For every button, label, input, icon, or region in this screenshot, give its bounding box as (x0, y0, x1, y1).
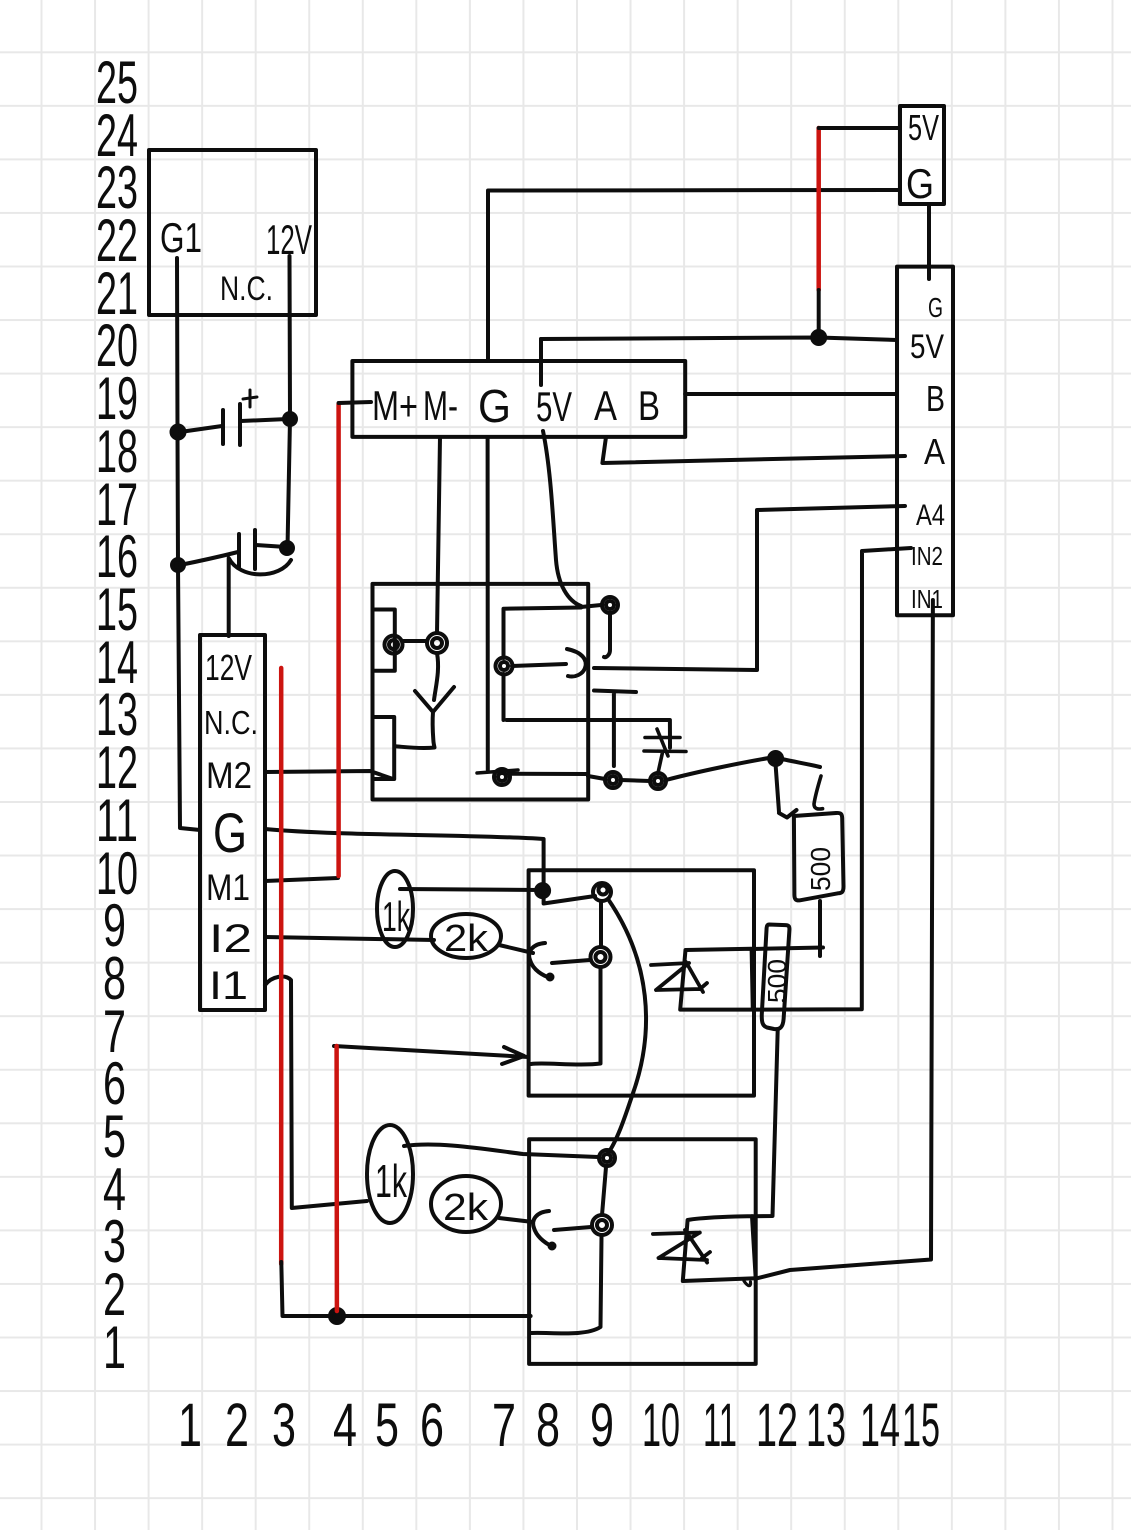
transistor Q1 base curl (529, 943, 552, 980)
node Q2 collector (599, 1150, 615, 1166)
svg-text:G: G (906, 160, 934, 207)
svg-text:A: A (594, 382, 617, 429)
wire 5V swoop to opto (543, 431, 581, 606)
svg-text:500: 500 (805, 847, 836, 891)
capacitor C4 symbol (644, 729, 686, 772)
wire K2 hook (744, 1281, 751, 1286)
wire red C 12V drop (279, 668, 284, 1264)
svg-text:10: 10 (642, 1391, 680, 1459)
wire 12V pin hop arc (229, 558, 291, 636)
wire I1 down to 1k R3 (265, 977, 367, 1208)
wire Q1 c-b (599, 901, 603, 947)
svg-text:15: 15 (902, 1391, 940, 1459)
wire 12V line (288, 256, 291, 548)
row numbers left (96, 49, 138, 1381)
wire I2 to 2k (265, 937, 434, 940)
svg-text:B: B (638, 382, 660, 429)
node bottom junction (330, 1309, 344, 1323)
wire Q1 base lead (552, 960, 590, 963)
svg-text:3: 3 (272, 1391, 296, 1459)
transistor Q2 base curl (533, 1211, 554, 1249)
node U1 pin1 (385, 636, 403, 654)
svg-text:IN1: IN1 (911, 584, 943, 614)
svg-text:M1: M1 (206, 867, 250, 908)
wire A4 (594, 506, 905, 670)
wire IN2 (756, 548, 911, 1010)
wire inner top to collector (581, 605, 601, 607)
wire G to Q1 (265, 829, 595, 904)
header box 5V G top right (900, 106, 944, 204)
svg-text:M-: M- (423, 382, 458, 429)
svg-text:G: G (928, 292, 943, 323)
svg-text:A4: A4 (916, 499, 945, 532)
svg-text:B: B (926, 378, 945, 419)
svg-text:2: 2 (225, 1391, 249, 1459)
wire B (685, 392, 897, 396)
wire collector tail (604, 614, 610, 657)
resistor R1 1k (377, 871, 413, 947)
wire G up to top header (488, 190, 898, 361)
svg-text:G: G (213, 801, 247, 864)
svg-text:2k: 2k (444, 918, 489, 960)
svg-text:I1: I1 (209, 964, 248, 1008)
node Q1 base (591, 947, 611, 967)
wire zener1 top to stem (752, 948, 823, 950)
svg-text:5V: 5V (536, 383, 572, 430)
svg-text:12V: 12V (266, 216, 312, 263)
svg-text:G1: G1 (160, 214, 202, 261)
wire M1 (265, 878, 338, 881)
node Q1 collector (593, 883, 611, 901)
svg-text:7: 7 (492, 1391, 516, 1459)
wire U1 pin1-pin2 (402, 639, 427, 643)
svg-text:N.C.: N.C. (220, 270, 273, 308)
wire node hook right (782, 759, 820, 767)
wire red M+ to M1 (336, 404, 341, 876)
node bottom b (605, 772, 621, 788)
optocoupler U1 box (373, 584, 589, 800)
wire R2 to base Q1 (499, 945, 533, 953)
wire R6 to Q2 base (499, 1218, 533, 1222)
svg-text:I2: I2 (209, 917, 252, 961)
svg-text:13: 13 (806, 1391, 846, 1459)
svg-text:5: 5 (375, 1391, 399, 1459)
wire G top header to driver (927, 204, 931, 279)
wire bottom rail (588, 758, 769, 781)
wire R3 to Q2 collector (404, 1145, 598, 1157)
diode Z2 zener (653, 1230, 710, 1263)
capacitor C2 (172, 530, 293, 571)
svg-text:1k: 1k (375, 1155, 408, 1207)
wire R4 lead (776, 765, 797, 818)
wire red D drop (334, 1046, 339, 1311)
svg-text:14: 14 (860, 1391, 900, 1459)
svg-text:11: 11 (703, 1391, 737, 1459)
resistor R4 500 (794, 813, 844, 900)
wire R4 bottom stem (818, 901, 822, 956)
resistor R2 2k (431, 914, 501, 958)
transistor Q1 box (529, 870, 754, 1095)
svg-text:12: 12 (756, 1391, 798, 1459)
resistor R5 500 (762, 925, 790, 1030)
wire M2 (265, 771, 393, 779)
wire Q1 emitter down (531, 967, 601, 1065)
svg-text:6: 6 (420, 1391, 444, 1459)
wire input arrow to Q1 (334, 1046, 528, 1064)
label l stroke (814, 776, 823, 809)
svg-text:M+: M+ (372, 382, 418, 429)
relay K2 box (683, 1216, 756, 1281)
wire tick at node a (477, 770, 518, 773)
svg-text:5V: 5V (908, 107, 939, 148)
wire Q2 base lead (554, 1227, 591, 1230)
wire M+ lead (339, 402, 371, 403)
svg-text:5V: 5V (910, 328, 944, 366)
svg-text:4: 4 (333, 1391, 357, 1459)
svg-text:9: 9 (590, 1391, 614, 1459)
motor header box M (352, 361, 685, 437)
svg-text:1: 1 (178, 1391, 202, 1459)
node U1 collector (602, 597, 618, 613)
transistor Q3 emitter arrow (512, 649, 586, 677)
wire 5V stub (539, 339, 543, 385)
U1 inner box (504, 608, 588, 775)
node junction to R4 (769, 752, 782, 765)
svg-text:1: 1 (103, 1314, 126, 1381)
diode Z1 zener (651, 962, 707, 992)
wire red 5V drop (816, 128, 821, 290)
capacitor T symbol (594, 691, 636, 767)
U1 pin tab top (373, 610, 395, 671)
node U1 base (496, 658, 513, 675)
wire Q2 emitter down (532, 1237, 602, 1333)
wire G1 line (177, 258, 200, 830)
wire R1 to node (400, 889, 540, 890)
wire 5V lead to top header (819, 126, 899, 130)
wire Q2 c-b (602, 1167, 606, 1215)
wire 5V rail (541, 331, 897, 344)
svg-text:2k: 2k (443, 1187, 489, 1229)
svg-text:8: 8 (536, 1391, 560, 1459)
wire A (602, 437, 905, 463)
wire arc Q1 to Q2 (608, 899, 647, 1154)
LED D1 arrow (395, 653, 454, 748)
svg-text:500: 500 (762, 959, 792, 1003)
relay K1 box (680, 949, 753, 1010)
node U1 pin2 (427, 633, 447, 653)
U1 pin tab bottom (373, 717, 394, 779)
node Q2 base (592, 1215, 612, 1235)
svg-text:1k: 1k (382, 893, 411, 940)
svg-text:IN2: IN2 (911, 541, 943, 571)
transistor Q2 box (529, 1139, 756, 1364)
connector J1 left box (200, 635, 265, 1010)
wire black below red C (281, 1262, 530, 1316)
capacitor C1 polarized (172, 390, 297, 445)
driver board box right (897, 267, 953, 616)
node bottom c (650, 773, 666, 789)
svg-text:A: A (924, 431, 945, 472)
svg-text:G: G (478, 380, 511, 432)
wire R5 bottom lead (752, 1030, 778, 1216)
resistor R3 1k (367, 1125, 413, 1223)
wire inner mid rail (507, 720, 671, 748)
wire IN1 (757, 600, 933, 1278)
svg-text:12V: 12V (205, 647, 252, 688)
svg-text:N.C.: N.C. (204, 704, 258, 741)
wire M- down (437, 437, 440, 633)
wire G down (486, 437, 490, 770)
wire black under red drop (817, 290, 821, 334)
column numbers bottom (178, 1391, 940, 1459)
node bottom a scribble (494, 769, 510, 785)
resistor R6 2k (431, 1176, 501, 1232)
svg-text:M2: M2 (206, 755, 252, 796)
power module box N.C. (149, 150, 316, 315)
